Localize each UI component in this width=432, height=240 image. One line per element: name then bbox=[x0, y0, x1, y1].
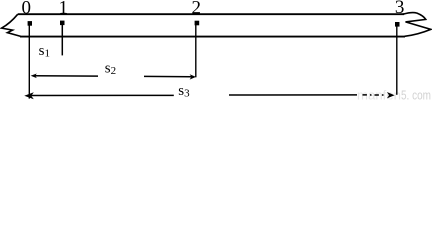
s3 dimension arrow left wire segment bbox=[30, 94, 174, 96]
node 1 dot bbox=[60, 21, 65, 26]
s2 dimension arrow right wire segment bbox=[144, 75, 192, 77]
node 2 dot bbox=[195, 21, 200, 26]
svg-text:3: 3 bbox=[395, 0, 405, 18]
svg-text:5. com: 5. com bbox=[401, 88, 431, 101]
right torn-edge break bbox=[403, 13, 431, 37]
svg-text:s1: s1 bbox=[39, 43, 50, 60]
node 3 dot bbox=[395, 22, 400, 27]
s3 dimension arrow right head bbox=[387, 92, 395, 98]
node 0 vertical drop wire bbox=[28, 23, 30, 98]
node 1 vertical drop wire bbox=[61, 23, 63, 56]
svg-text:s3: s3 bbox=[178, 83, 190, 100]
svg-text:0: 0 bbox=[22, 0, 32, 19]
svg-text:s2: s2 bbox=[105, 60, 116, 77]
s2 dimension arrow left head bbox=[31, 74, 37, 79]
svg-text:2: 2 bbox=[192, 0, 202, 19]
s3 dimension arrow left head bbox=[24, 92, 34, 99]
tape band bottom edge wire bbox=[20, 36, 405, 38]
svg-text:1: 1 bbox=[59, 0, 69, 19]
node 3 vertical drop wire bbox=[396, 24, 398, 95]
node 0 dot bbox=[28, 21, 32, 26]
s3 dimension arrow dash-dot segment bbox=[363, 94, 386, 96]
s2 dimension arrow left wire segment bbox=[34, 75, 99, 77]
s2 dimension arrow right head bbox=[190, 74, 196, 79]
s3 dimension arrow right wire segment bbox=[229, 94, 357, 96]
left torn-edge break bbox=[2, 14, 21, 36]
tape band top edge wire bbox=[18, 13, 404, 15]
node 2 vertical drop wire bbox=[195, 23, 197, 77]
